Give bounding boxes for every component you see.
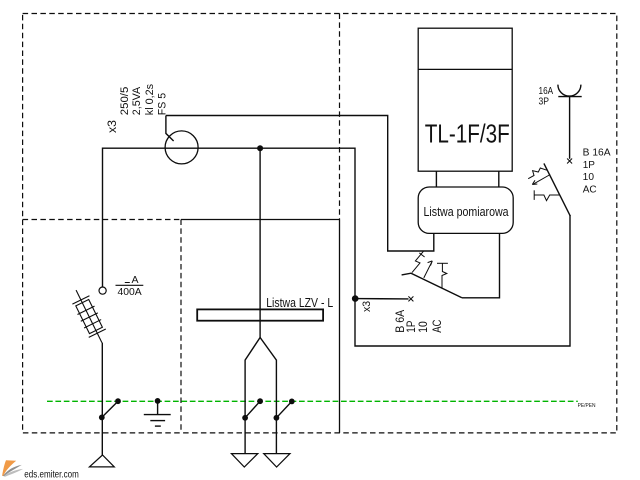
svg-text:1P: 1P bbox=[583, 160, 596, 171]
svg-text:x3: x3 bbox=[361, 301, 373, 312]
svg-text:250/5: 250/5 bbox=[119, 87, 131, 116]
svg-text:kl 0,2s: kl 0,2s bbox=[144, 84, 156, 116]
svg-text:AC: AC bbox=[430, 319, 444, 332]
svg-text:eds.emiter.com: eds.emiter.com bbox=[24, 469, 79, 480]
svg-text:Listwa pomiarowa: Listwa pomiarowa bbox=[424, 204, 510, 219]
svg-text:10: 10 bbox=[583, 172, 595, 183]
svg-text:A: A bbox=[132, 274, 139, 286]
svg-text:3P: 3P bbox=[539, 96, 550, 107]
svg-text:x3: x3 bbox=[107, 120, 119, 133]
svg-text:AC: AC bbox=[583, 184, 597, 195]
svg-text:PE/PEN: PE/PEN bbox=[578, 403, 596, 409]
svg-text:TL-1F/3F: TL-1F/3F bbox=[425, 119, 510, 149]
svg-text:2,5VA: 2,5VA bbox=[131, 86, 143, 115]
svg-text:10: 10 bbox=[416, 321, 430, 333]
svg-text:FS 5: FS 5 bbox=[156, 93, 168, 115]
svg-text:400A: 400A bbox=[118, 287, 143, 298]
svg-text:Listwa LZV - L: Listwa LZV - L bbox=[266, 295, 333, 310]
svg-text:B 16A: B 16A bbox=[583, 148, 611, 159]
svg-text:16A: 16A bbox=[539, 86, 554, 97]
